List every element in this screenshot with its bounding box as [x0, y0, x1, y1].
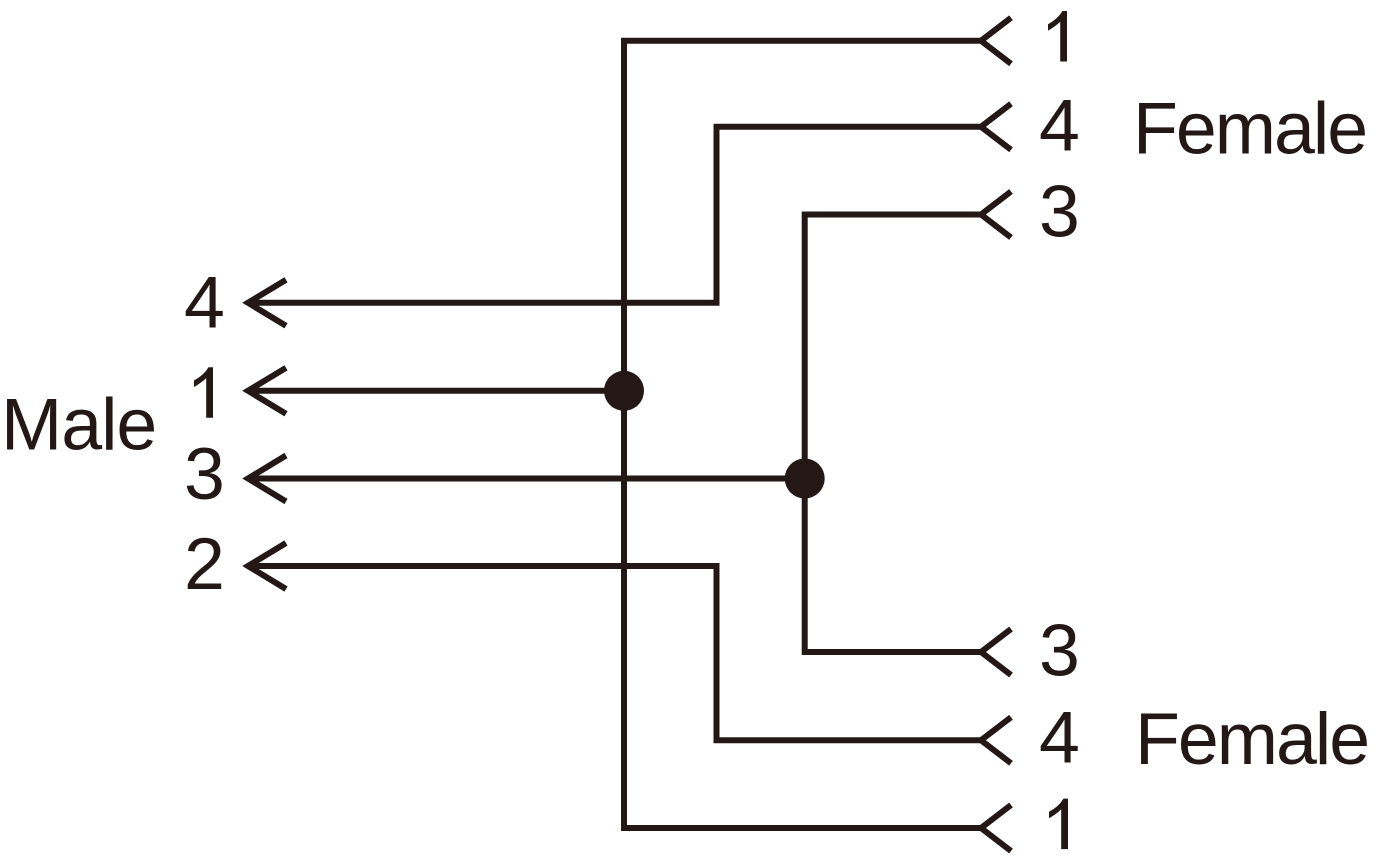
arrowhead female-bottom pin4	[981, 717, 1011, 763]
wire male pin1 branch	[249, 388, 624, 394]
junction dot pin3 net	[785, 459, 825, 499]
svg-text:4: 4	[184, 261, 225, 344]
svg-text:2: 2	[184, 522, 225, 605]
arrowhead male pin4	[248, 280, 286, 326]
pin label male 1	[194, 367, 213, 418]
arrowhead male pin1	[248, 368, 286, 414]
wire net pin4 bottom: male 2 to female-bottom 4	[249, 566, 982, 740]
svg-text:3: 3	[184, 432, 225, 515]
arrowhead male pin2	[248, 543, 286, 589]
arrowhead female-top pin3	[981, 192, 1011, 238]
svg-text:3: 3	[1039, 170, 1080, 253]
arrowhead female-top pin4	[981, 104, 1011, 150]
svg-text:Female: Female	[1133, 87, 1366, 170]
wire male pin3 branch	[249, 476, 805, 482]
pin label female-top 1	[1048, 11, 1067, 62]
arrowhead female-top pin1	[981, 18, 1011, 64]
svg-text:4: 4	[1039, 84, 1080, 167]
wire net pin1: male 1 to female-top 1 and female-bottom 1	[624, 41, 982, 828]
wire net pin3: male 3 to female-top 3 and female-bottom 3	[805, 215, 982, 653]
svg-text:3: 3	[1039, 609, 1080, 692]
junction dot pin1 net	[604, 371, 644, 411]
svg-text:Male: Male	[1, 383, 156, 466]
svg-text:Female: Female	[1135, 697, 1368, 780]
wire net pin4 top: male 4 to female-top 4	[249, 127, 982, 303]
pin label female-bottom 1	[1049, 799, 1068, 850]
arrowhead female-bottom pin3	[981, 629, 1011, 675]
svg-text:4: 4	[1039, 696, 1080, 779]
arrowhead female-bottom pin1	[981, 805, 1011, 851]
arrowhead male pin3	[248, 456, 286, 502]
